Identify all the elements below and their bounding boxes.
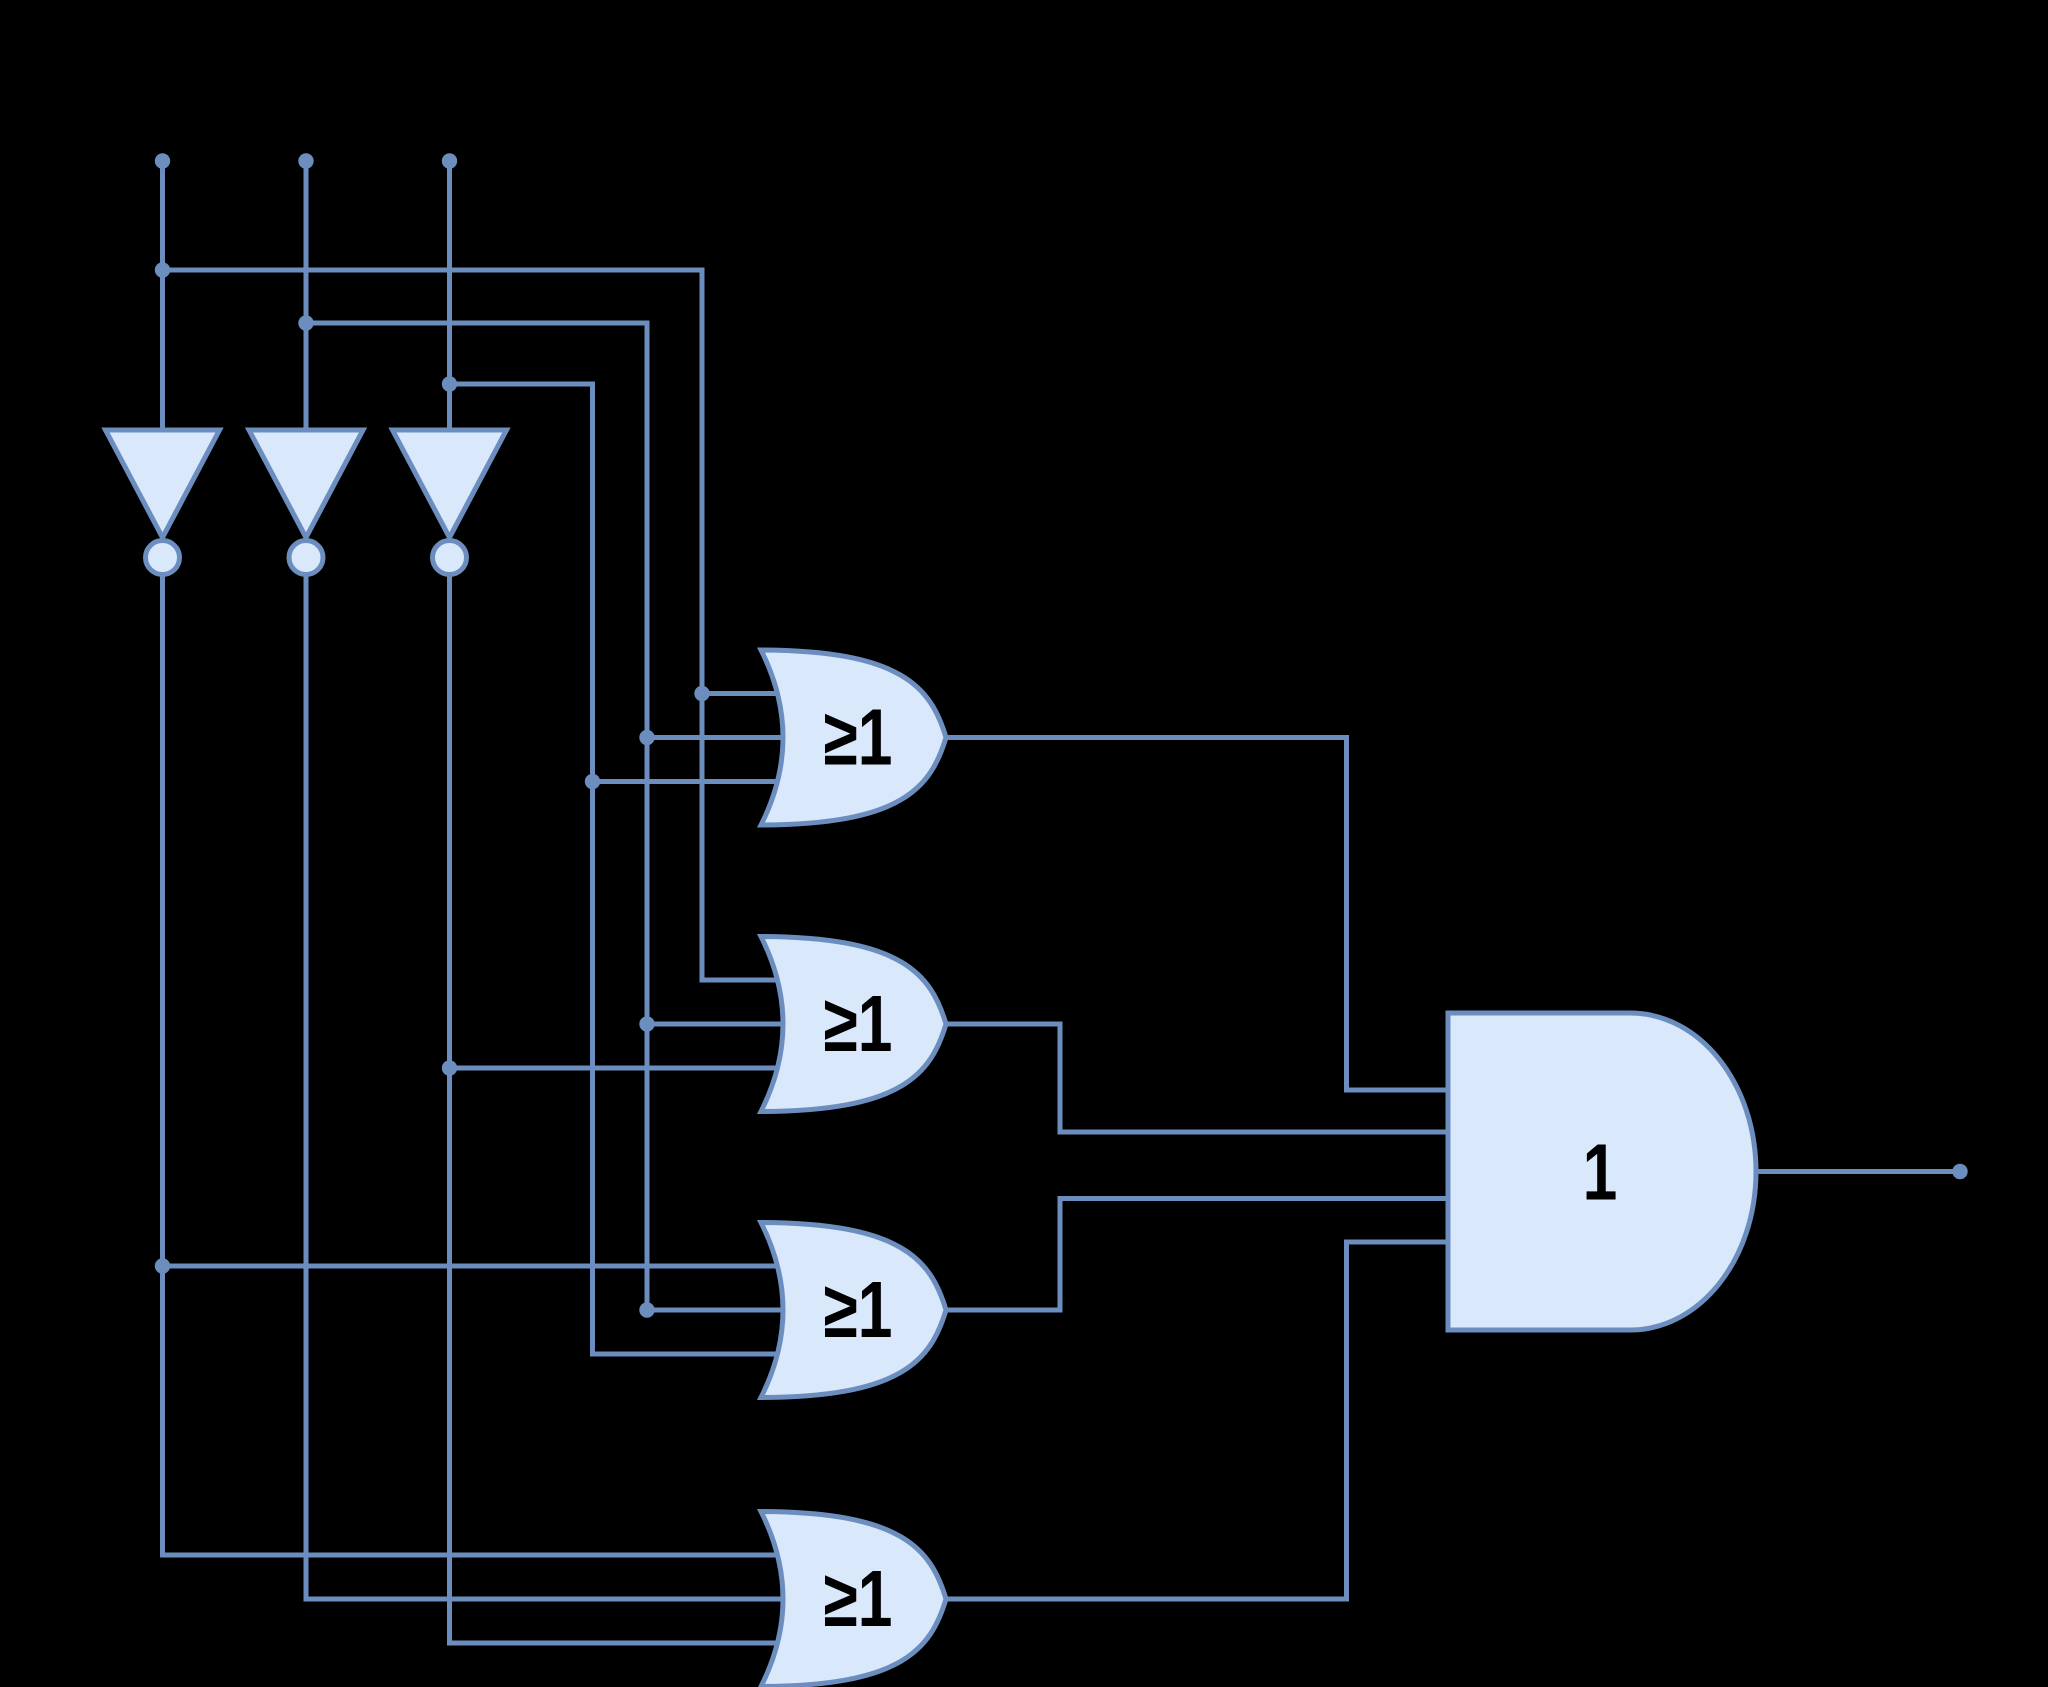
node junction line C inverted for OR2 input C xyxy=(442,1060,457,1075)
svg-text:≥1: ≥1 xyxy=(824,1266,893,1355)
node junction C branch xyxy=(442,376,457,391)
wire stub OR1 input A xyxy=(702,691,790,696)
wire branch B (uninverted) to vertical x=647 feeding OR1 B, OR2 B, OR3 B xyxy=(306,323,815,1310)
wire branch C (uninverted) to vertical x=592.5 feeding OR1 C, OR3 C xyxy=(450,384,791,1354)
wire stub OR1 input B xyxy=(647,735,815,740)
node terminal input B xyxy=(298,153,313,168)
wire input line B vertical with branch to OR4 input B xyxy=(306,161,815,1599)
wire OR2 output to AND input 2 xyxy=(945,1024,1455,1132)
OR gate U6 (notA+B+C) xyxy=(761,1223,946,1398)
node junction OR1 input C xyxy=(585,774,600,789)
node junction A branch xyxy=(155,262,170,277)
node junction line A inverted for OR3 input A xyxy=(155,1258,170,1273)
inverter U1 (NOT gate on line A) xyxy=(106,430,220,575)
wire AND output xyxy=(1753,1169,1960,1174)
inverter U2 (NOT gate on line B) xyxy=(249,430,363,575)
node junction OR3 input B xyxy=(639,1302,654,1317)
wire OR1 output to AND input 1 xyxy=(945,738,1455,1091)
svg-text:≥1: ≥1 xyxy=(824,693,893,782)
svg-text:≥1: ≥1 xyxy=(824,1555,893,1644)
wire OR3 input A from inverted line A xyxy=(163,1264,791,1269)
wire input line C vertical with branch to OR4 input C xyxy=(450,161,791,1643)
svg-text:1: 1 xyxy=(1583,1128,1618,1217)
node terminal input A xyxy=(155,153,170,168)
AND gate U8 (output gate) xyxy=(1448,1013,1756,1330)
svg-text:≥1: ≥1 xyxy=(824,980,893,1069)
wire input line A vertical with branch to OR4 input A xyxy=(163,161,791,1555)
inverter U3 (NOT gate on line C) xyxy=(393,430,507,575)
node junction OR1 input B xyxy=(639,730,654,745)
node terminal input C xyxy=(442,153,457,168)
wire OR2 input C from inverted line C xyxy=(450,1066,791,1071)
node terminal output xyxy=(1952,1164,1967,1179)
wire OR4 output to AND input 4 xyxy=(945,1242,1455,1599)
wire stub OR2 input B xyxy=(647,1022,815,1027)
node junction OR2 input B xyxy=(639,1016,654,1031)
wire branch A (uninverted) to vertical x=702 feeding OR1 input A and OR2 input A xyxy=(163,270,791,980)
wire stub OR1 input C xyxy=(593,779,791,784)
OR gate U5 (A+B+notC) xyxy=(761,937,946,1112)
node junction B branch xyxy=(298,315,313,330)
OR gate U4 (top, A+B+C) xyxy=(761,650,946,825)
wire OR3 output to AND input 3 xyxy=(945,1199,1455,1311)
OR gate U7 (notA+notB+notC) xyxy=(761,1512,946,1687)
node junction OR1 input A xyxy=(694,686,709,701)
